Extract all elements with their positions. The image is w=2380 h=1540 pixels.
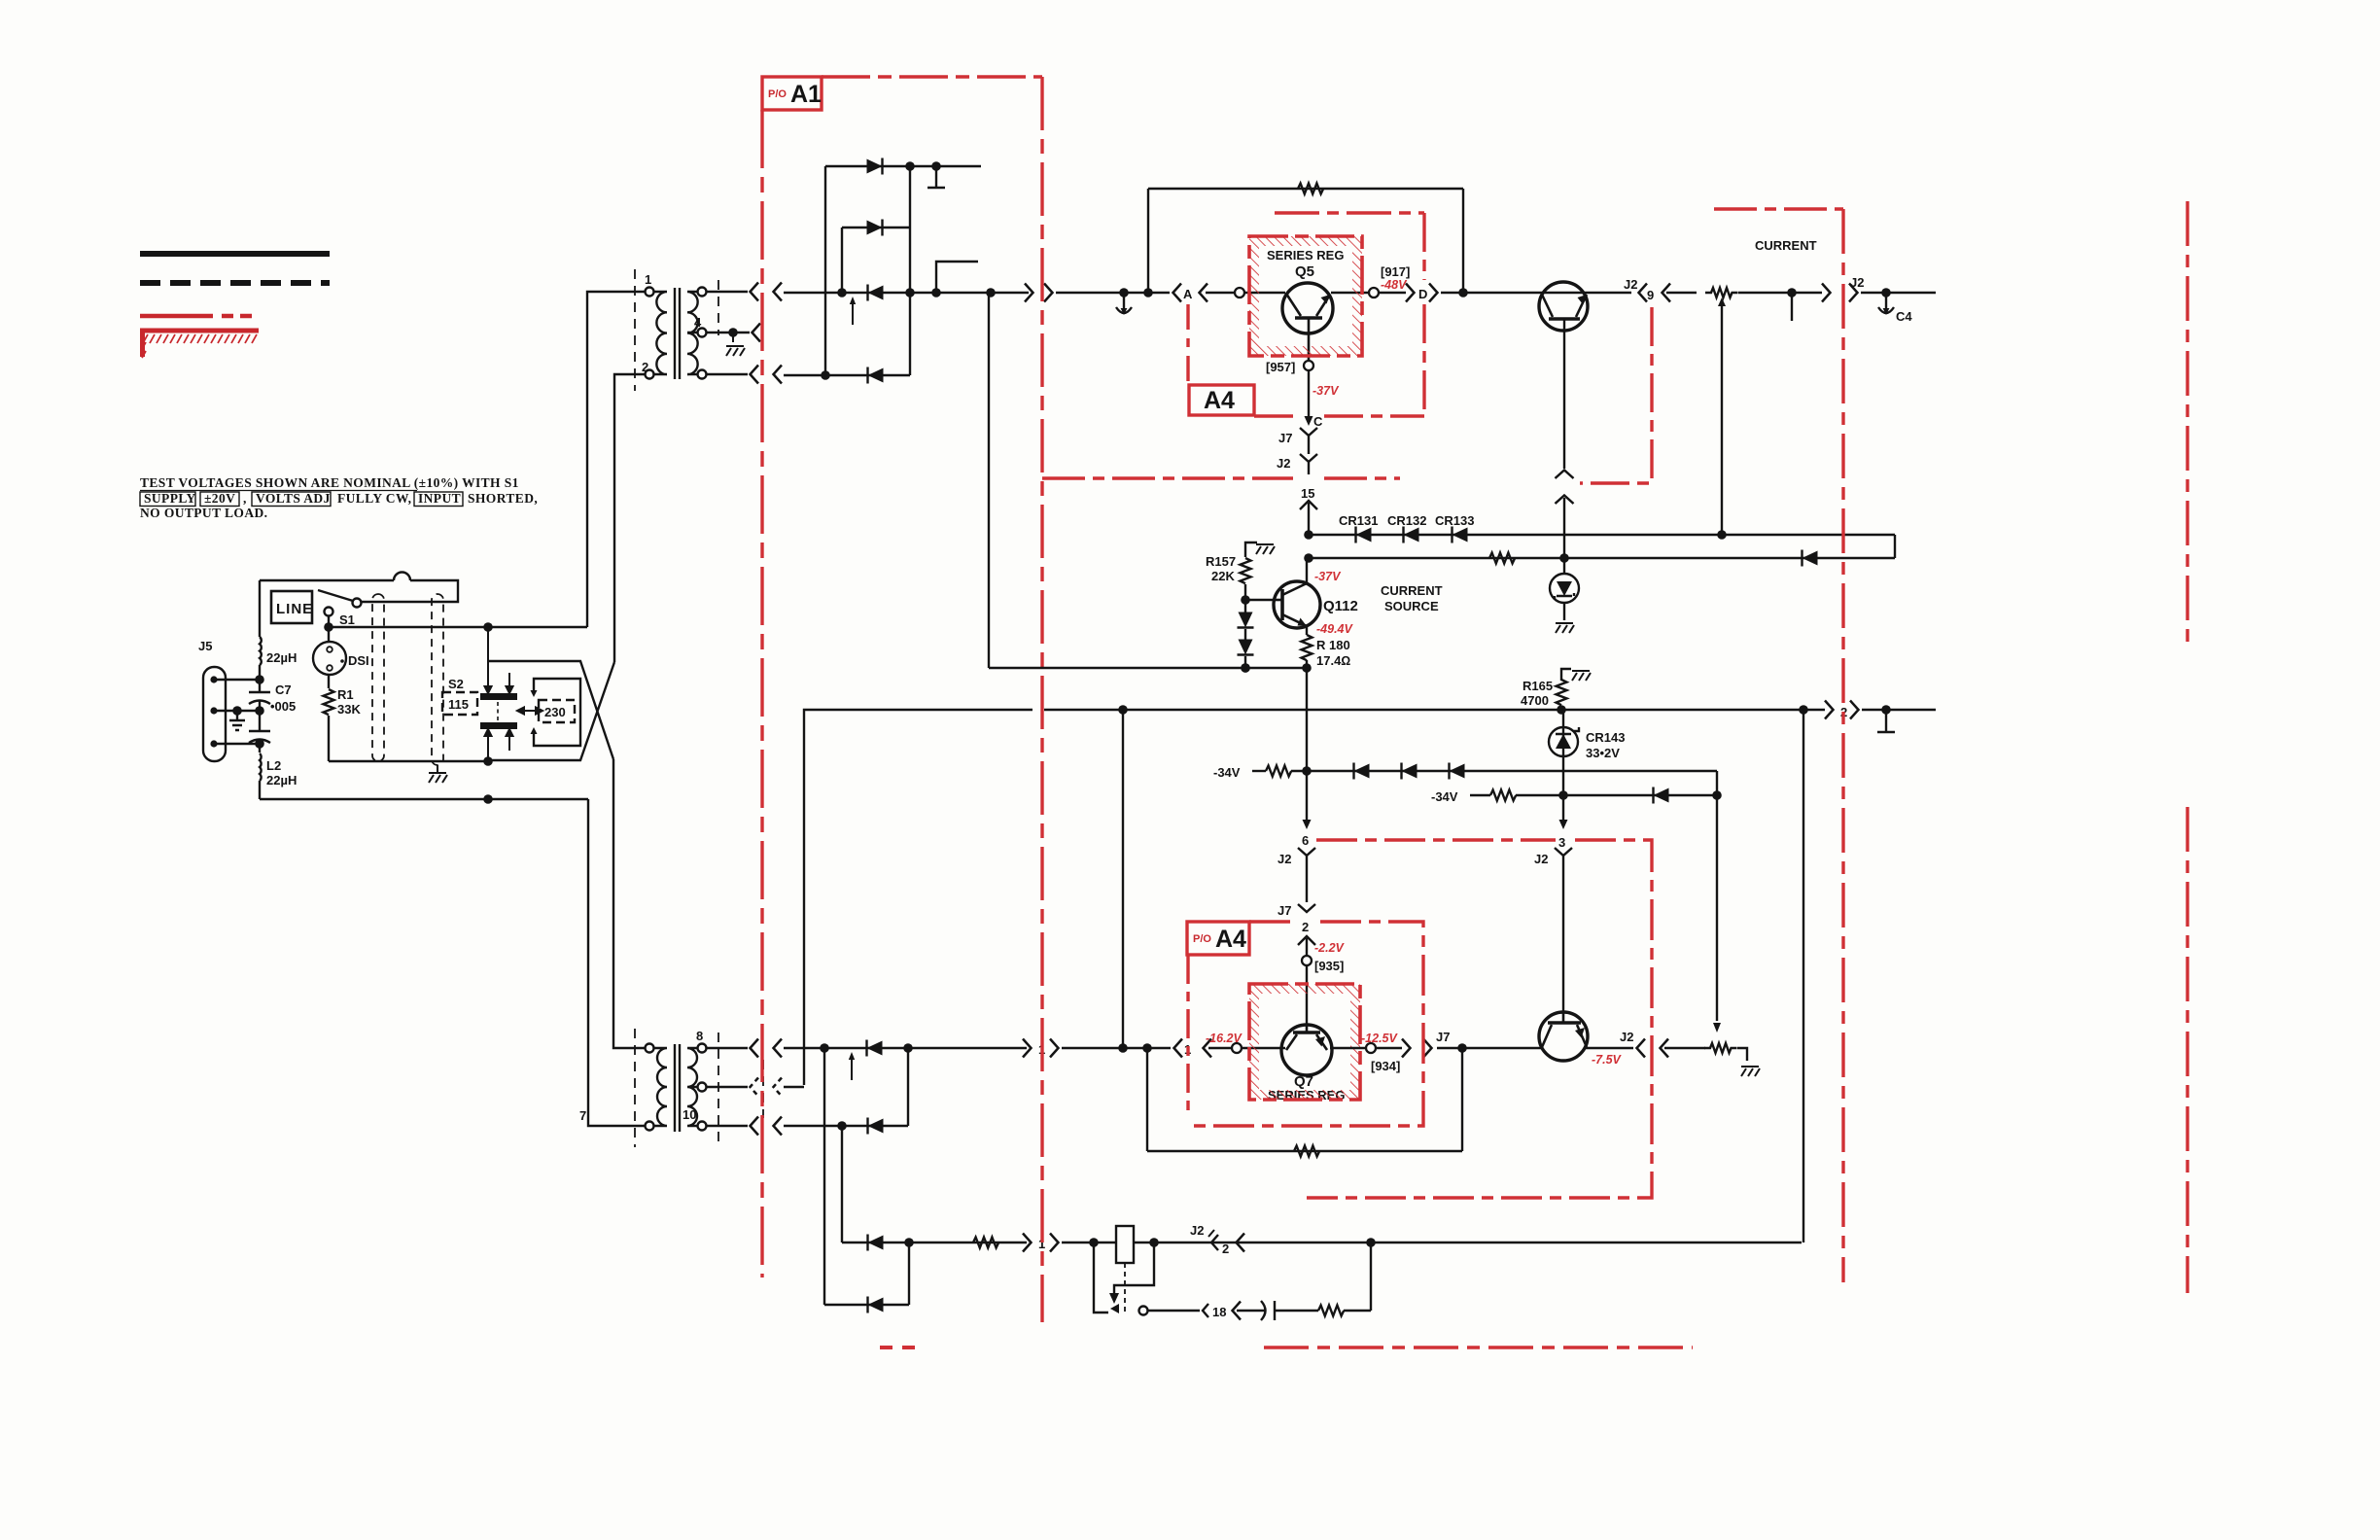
svg-text:7: 7 <box>579 1108 586 1123</box>
inductor L2 22uH <box>260 753 262 799</box>
vertical x936 <box>909 166 911 375</box>
T1 secondary top wire <box>706 291 748 293</box>
svg-text:CR131: CR131 <box>1339 513 1378 528</box>
svg-text:-2.2V: -2.2V <box>1314 941 1346 955</box>
svg-text:J2: J2 <box>1624 277 1637 292</box>
pot wiper arrow <box>1721 304 1723 535</box>
svg-text:SUPPLY: SUPPLY <box>144 491 196 506</box>
diode lower rail <box>867 1040 883 1057</box>
svg-text:•005: •005 <box>270 699 296 714</box>
svg-text:Q5: Q5 <box>1295 263 1314 280</box>
R157 base wire <box>1244 584 1246 612</box>
diode D2 <box>867 220 883 236</box>
wire D4 row y386 <box>784 374 910 376</box>
svg-text:A4: A4 <box>1215 926 1246 953</box>
red bottom dash line <box>880 1346 915 1349</box>
230 selection loop <box>534 679 580 746</box>
Q7 output <box>1330 1047 1366 1049</box>
resistor wire y574 <box>1309 557 1895 559</box>
svg-text:D: D <box>1418 287 1427 301</box>
core <box>674 288 676 379</box>
wire crossover upper vertical to primary pin 2 <box>614 374 645 662</box>
svg-text:J5: J5 <box>198 639 212 653</box>
wire crossover lower vertical to lower primary top pin <box>613 759 645 1048</box>
ground at J5 mid <box>229 720 245 730</box>
red top right boundary <box>1714 207 1843 210</box>
svg-text:P/O: P/O <box>768 88 787 100</box>
legend red dash-dot line <box>140 314 252 319</box>
vertical x1155 to lower rail <box>1122 710 1124 1048</box>
svg-text:SHORTED,: SHORTED, <box>468 491 538 506</box>
svg-text:33•2V: 33•2V <box>1586 746 1620 760</box>
CR131-133 wire y550 <box>1309 534 1895 536</box>
resistor y1278 <box>973 1238 998 1248</box>
svg-text:FULLY CW,: FULLY CW, <box>337 491 411 506</box>
T1 secondary bottom wire <box>706 373 748 375</box>
S2 dashed box 115 <box>442 692 477 715</box>
primary winding <box>653 292 667 374</box>
zener diode to ground <box>1550 574 1579 603</box>
feedback right vertical <box>1462 189 1464 293</box>
J7 2 connector <box>1298 904 1315 912</box>
svg-text:Q112: Q112 <box>1323 598 1358 614</box>
connector >1> lower rail <box>1023 1039 1032 1058</box>
upper A4 outer dashed red box <box>1188 213 1424 416</box>
primary winding <box>653 1048 667 1126</box>
measurement arrow up lower <box>851 1058 853 1080</box>
loop top wire with breaker bump <box>260 573 458 602</box>
230 dashed box <box>539 700 575 722</box>
bottom return wire y687 <box>989 667 1307 669</box>
legend dashed black line <box>140 280 330 286</box>
relay contact arm arrow <box>1114 1242 1154 1294</box>
potentiometer upper <box>1705 288 1738 297</box>
wire y1342 row <box>824 1304 909 1306</box>
svg-text:[935]: [935] <box>1314 959 1344 973</box>
svg-text:1: 1 <box>645 272 651 287</box>
connector <1< on A4 lower <box>1174 1039 1183 1058</box>
svg-text:-34V: -34V <box>1213 765 1241 780</box>
svg-text:15: 15 <box>1301 486 1314 501</box>
svg-text:17.4Ω: 17.4Ω <box>1316 653 1350 668</box>
svg-text:6: 6 <box>1302 833 1309 848</box>
output connector chevrons to A1 edge <box>1025 284 1033 302</box>
left vertical x849 <box>824 166 826 375</box>
shield dashed line <box>634 269 636 391</box>
svg-text:J2: J2 <box>1190 1223 1204 1238</box>
Q112 collector <box>1306 558 1308 583</box>
svg-text:230: 230 <box>544 705 566 719</box>
svg-text:C7: C7 <box>275 682 292 697</box>
svg-text:[957]: [957] <box>1266 360 1295 374</box>
svg-text:SOURCE: SOURCE <box>1384 599 1439 613</box>
svg-text:CR132: CR132 <box>1387 513 1426 528</box>
wire J5 pins <box>214 680 260 744</box>
lower rail y1078 left <box>784 1047 1027 1049</box>
secondary side dashed line <box>717 280 719 335</box>
vertical x866 down <box>841 1126 843 1242</box>
hatched red box around Q7 <box>1249 984 1360 1100</box>
switch S1 <box>318 590 362 627</box>
relay contact left post <box>1094 1242 1108 1312</box>
P/O A1 label box <box>762 77 822 110</box>
svg-text:C4: C4 <box>1896 309 1912 324</box>
svg-text:[934]: [934] <box>1371 1059 1400 1073</box>
resistor on 18 wire <box>1318 1306 1344 1316</box>
T2 mid tap long wire <box>784 1086 804 1088</box>
Q7 base column from J7 2 <box>1306 965 1308 1025</box>
diode y1342 <box>868 1297 884 1313</box>
lower rail wire from A1 edge to Q7 <box>1118 1043 1128 1053</box>
svg-text:22µH: 22µH <box>266 773 297 787</box>
svg-text:J7: J7 <box>1278 431 1292 445</box>
red vertical x2250 <box>2186 201 2188 642</box>
series diode 1 <box>1238 612 1254 628</box>
lamp DS1 <box>313 627 369 675</box>
svg-text:J2: J2 <box>1277 456 1290 471</box>
svg-text:-34V: -34V <box>1431 789 1458 804</box>
svg-text:C: C <box>1313 414 1323 429</box>
svg-text:S2: S2 <box>448 677 464 691</box>
svg-text:J7: J7 <box>1436 1030 1450 1044</box>
connector D chevrons <box>1406 284 1415 302</box>
measurement arrow up <box>852 302 854 325</box>
svg-text:4700: 4700 <box>1521 693 1549 708</box>
diode CR133 <box>1452 527 1468 543</box>
legend red hatched corner <box>140 329 259 358</box>
svg-text:22µH: 22µH <box>266 650 297 665</box>
series diode 2 <box>1238 640 1254 655</box>
svg-text:-37V: -37V <box>1312 384 1340 398</box>
junction with stub hook <box>1787 288 1797 297</box>
T2 pin10 wire <box>706 1125 748 1127</box>
corner down x1766 <box>1716 771 1718 1021</box>
svg-text:22K: 22K <box>1211 569 1235 583</box>
svg-text:TEST VOLTAGES SHOWN ARE NOMINA: TEST VOLTAGES SHOWN ARE NOMINAL (±10%) W… <box>140 475 519 490</box>
resistor R1 33K <box>324 675 362 761</box>
secondary winding <box>687 1048 698 1126</box>
svg-text:CR143: CR143 <box>1586 730 1625 745</box>
diode y1278 <box>868 1235 884 1251</box>
J2-15 to CR junction vertical <box>1304 530 1313 540</box>
svg-text:3: 3 <box>1558 835 1565 850</box>
long vertical x1017 <box>988 293 990 668</box>
hatched red box around Q5 <box>1249 236 1362 356</box>
svg-text:-37V: -37V <box>1314 570 1342 583</box>
R165 with ground <box>1561 669 1571 681</box>
Q5 base node <box>1304 361 1313 370</box>
diode D4 <box>868 367 884 384</box>
diode CR132 <box>1404 527 1419 543</box>
svg-text:L2: L2 <box>266 758 281 773</box>
secondary pins <box>698 288 707 297</box>
R1 bottom wire <box>329 760 488 762</box>
bracket stub above y301 <box>936 262 978 293</box>
S2 arrows <box>485 631 543 761</box>
S2 slider bars <box>480 693 517 700</box>
transformer T2 (lower) <box>579 1029 763 1147</box>
secondary winding <box>687 292 698 374</box>
P/O A4 label box <box>1187 922 1249 955</box>
svg-text:SERIES REG: SERIES REG <box>1267 248 1344 262</box>
svg-text:CURRENT: CURRENT <box>1381 583 1443 598</box>
svg-text:A: A <box>1183 287 1193 301</box>
terminal stub on y171 <box>935 166 937 187</box>
R157 ground bend <box>1245 542 1257 557</box>
diode y1158 <box>868 1118 884 1135</box>
svg-text:9: 9 <box>1647 288 1654 302</box>
secondary side dashed lines <box>717 1032 719 1145</box>
svg-text:J2: J2 <box>1620 1030 1633 1044</box>
svg-text:-16.2V: -16.2V <box>1206 1032 1242 1045</box>
connector J5 <box>198 639 226 761</box>
relay feed wire y1278 <box>842 1242 1027 1243</box>
feedback left vertical <box>1147 189 1149 293</box>
corner down to y574 <box>1894 535 1896 558</box>
svg-text:2: 2 <box>1302 920 1309 934</box>
loop bottom wire <box>260 798 588 800</box>
svg-text:4: 4 <box>694 315 702 330</box>
primary pins <box>646 1044 654 1053</box>
T1 tap 4 wire <box>706 332 750 333</box>
contact circle <box>1139 1307 1148 1315</box>
svg-text:NO OUTPUT LOAD.: NO OUTPUT LOAD. <box>140 506 267 520</box>
diodes on -34V wire <box>1354 763 1370 780</box>
capacitor C4 hook <box>1878 295 1894 315</box>
wire D2 row y234 <box>842 227 910 228</box>
connector chevrons top secondary <box>751 283 759 301</box>
gang dashed link 2 <box>432 594 443 765</box>
big loop vertical x1855 <box>1802 710 1804 1242</box>
svg-text:A4: A4 <box>1204 387 1235 414</box>
note text <box>140 475 538 520</box>
lower right transistor output <box>1585 1047 1633 1049</box>
transistor Q112 <box>1274 581 1320 628</box>
J2 3 connector column <box>1562 795 1564 822</box>
terminal stub on bus end <box>1885 710 1887 731</box>
feedback loop top wire y194 <box>1148 188 1463 190</box>
svg-text:CR133: CR133 <box>1435 513 1474 528</box>
diode on lower -34V wire <box>1654 787 1669 804</box>
connector A chevrons <box>1173 284 1182 302</box>
connector 18 <box>1203 1304 1208 1317</box>
svg-text:-49.4V: -49.4V <box>1316 622 1353 636</box>
svg-text:A1: A1 <box>790 81 822 108</box>
diode on y574 <box>1802 550 1818 567</box>
svg-text:R 180: R 180 <box>1316 638 1350 652</box>
Q5 output wire <box>1331 292 1369 294</box>
zener CR143 <box>1562 710 1564 795</box>
svg-text:-12.5V: -12.5V <box>1361 1032 1398 1045</box>
Q7 feedback loop <box>1461 1048 1463 1151</box>
inductor L1 22uH <box>260 580 262 665</box>
svg-text:CURRENT: CURRENT <box>1755 238 1817 253</box>
connector >2> on bus <box>1825 701 1834 719</box>
svg-text:-48V: -48V <box>1381 278 1408 292</box>
svg-text:R165: R165 <box>1522 679 1553 693</box>
diode D1 <box>867 158 883 175</box>
diode D3 <box>868 285 884 301</box>
upper right transistor <box>1539 282 1588 469</box>
gang dashed link 1 <box>372 594 384 761</box>
lower right transistor <box>1539 1012 1588 1061</box>
Q112 emitter / R180 <box>1306 626 1308 635</box>
svg-text:[917]: [917] <box>1381 264 1410 279</box>
main wire y301 from connector <box>784 292 1029 294</box>
svg-text:J2: J2 <box>1534 852 1548 866</box>
svg-text:±20V: ±20V <box>204 491 235 506</box>
connector J2 socket <box>1300 454 1317 474</box>
red lower A4 boundary <box>1188 922 1423 1126</box>
crossover X wires <box>488 661 614 760</box>
secondary pins <box>698 1044 707 1053</box>
potentiometer lower <box>1704 1043 1737 1053</box>
svg-text:115: 115 <box>448 697 469 712</box>
J2 6 connector column <box>1306 771 1308 822</box>
connector >1> relay wire <box>1023 1234 1032 1252</box>
svg-text:10: 10 <box>682 1107 696 1122</box>
svg-text:LINE: LINE <box>276 601 313 617</box>
pin 2 <box>646 370 654 379</box>
red path y864 to x1699 down to y1232 <box>1307 840 1652 1198</box>
pin 1 <box>646 288 654 297</box>
core <box>674 1044 676 1132</box>
legend solid black line <box>140 251 330 257</box>
svg-text:33K: 33K <box>337 702 361 717</box>
red vertical x1896 <box>1841 209 1844 1282</box>
vertical x935 up <box>908 1242 910 1305</box>
corner up to relay wire <box>1370 1242 1372 1311</box>
relay coil K1 <box>1116 1226 1134 1263</box>
LINE label box <box>271 591 312 623</box>
svg-text:P/O: P/O <box>1193 933 1211 945</box>
transistor Q5 <box>1282 283 1333 361</box>
transformer T1 (upper) <box>635 269 718 391</box>
svg-text:R157: R157 <box>1206 554 1236 569</box>
transistor Q7 <box>1281 1025 1332 1075</box>
svg-text:,: , <box>243 491 247 506</box>
resistor R157 <box>1241 558 1251 583</box>
feedback resistor <box>1298 184 1323 194</box>
hook to chassis at x1156 <box>1119 288 1129 297</box>
vertical x866 <box>841 227 843 293</box>
svg-text:R1: R1 <box>337 687 354 702</box>
capacitor C7 <box>249 665 270 752</box>
wire y1158 row <box>784 1125 908 1127</box>
connector J7 socket <box>1300 428 1317 454</box>
svg-text:2: 2 <box>1222 1242 1229 1256</box>
svg-text:VOLTS ADJ: VOLTS ADJ <box>256 491 331 506</box>
svg-text:S1: S1 <box>339 612 355 627</box>
svg-text:J2: J2 <box>1277 852 1291 866</box>
capacitor on 18 wire <box>1261 1301 1266 1320</box>
T2 mid tap wire (dashed connector) <box>706 1086 748 1088</box>
long bus wire y730 <box>804 710 1825 1085</box>
P/O A1 red boundary <box>762 77 1400 1322</box>
connector J7 right <box>1402 1039 1411 1058</box>
svg-text:J7: J7 <box>1277 903 1291 918</box>
vertical x934 up <box>907 1048 909 1126</box>
wire top rail y171 <box>825 165 981 167</box>
wire S1 hot riser to primary pin 1 <box>587 292 645 627</box>
svg-text:2: 2 <box>642 360 648 374</box>
T2 pin8 wire <box>706 1047 748 1049</box>
wire to Q5 <box>1206 292 1235 294</box>
diode CR131 <box>1356 527 1372 543</box>
S1 junction wire <box>329 626 587 628</box>
A4 label box <box>1189 385 1254 415</box>
svg-text:-7.5V: -7.5V <box>1592 1053 1623 1067</box>
svg-text:DSI: DSI <box>348 653 369 668</box>
svg-text:8: 8 <box>696 1029 703 1043</box>
vertical x848 down <box>823 1048 825 1305</box>
connector J2 output right <box>1822 284 1831 302</box>
chevron pair below transistor <box>1556 471 1574 479</box>
svg-text:INPUT: INPUT <box>418 491 461 506</box>
pot wiper arrow from above <box>1713 1023 1721 1032</box>
ground below gang link <box>429 773 447 783</box>
shield dashed line <box>634 1029 636 1147</box>
svg-text:18: 18 <box>1212 1305 1226 1319</box>
ground at tap 4 <box>726 346 745 356</box>
wire loop bottom to lower primary pin 7 <box>588 799 645 1126</box>
red C path at J2-9 <box>1580 307 1652 483</box>
